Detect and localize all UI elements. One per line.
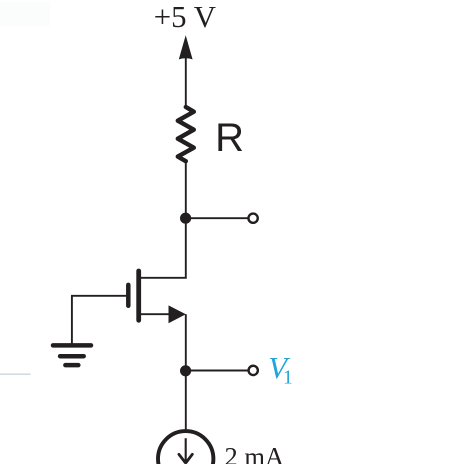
wire: resistor to drain node [185,161,187,218]
terminal: drain output open circle [248,214,257,223]
artifact: faint top-left patch [0,2,50,26]
wire: source corner down to V1 node [185,314,187,370]
node: drain node dot [180,213,191,224]
wire: drain node down and left to transistor channel [140,218,186,278]
svg-text:R: R [215,116,244,160]
ground [53,345,91,365]
transistor Q1 gate bar [126,285,131,306]
terminal: V1 open circle [249,366,258,375]
wire: V1 node to current source [185,370,187,429]
transistor Q1 channel bar [136,271,141,320]
svg-text:+5 V: +5 V [154,0,216,34]
transistor Q1 source lead with arrowhead [140,305,186,323]
wire: drain node to output terminal [186,217,249,219]
svg-text:2 mA: 2 mA [225,442,285,464]
current source I1 (2 mA) [158,431,213,464]
wire: V1 node to terminal [186,370,249,372]
svg-text:V1: V1 [268,350,292,388]
resistor R [178,107,194,161]
node: V1 node dot [180,365,191,376]
wire: gate lead to ground corner [72,296,126,345]
power supply arrow [179,35,193,107]
artifact: faint line at left edge [0,373,31,375]
